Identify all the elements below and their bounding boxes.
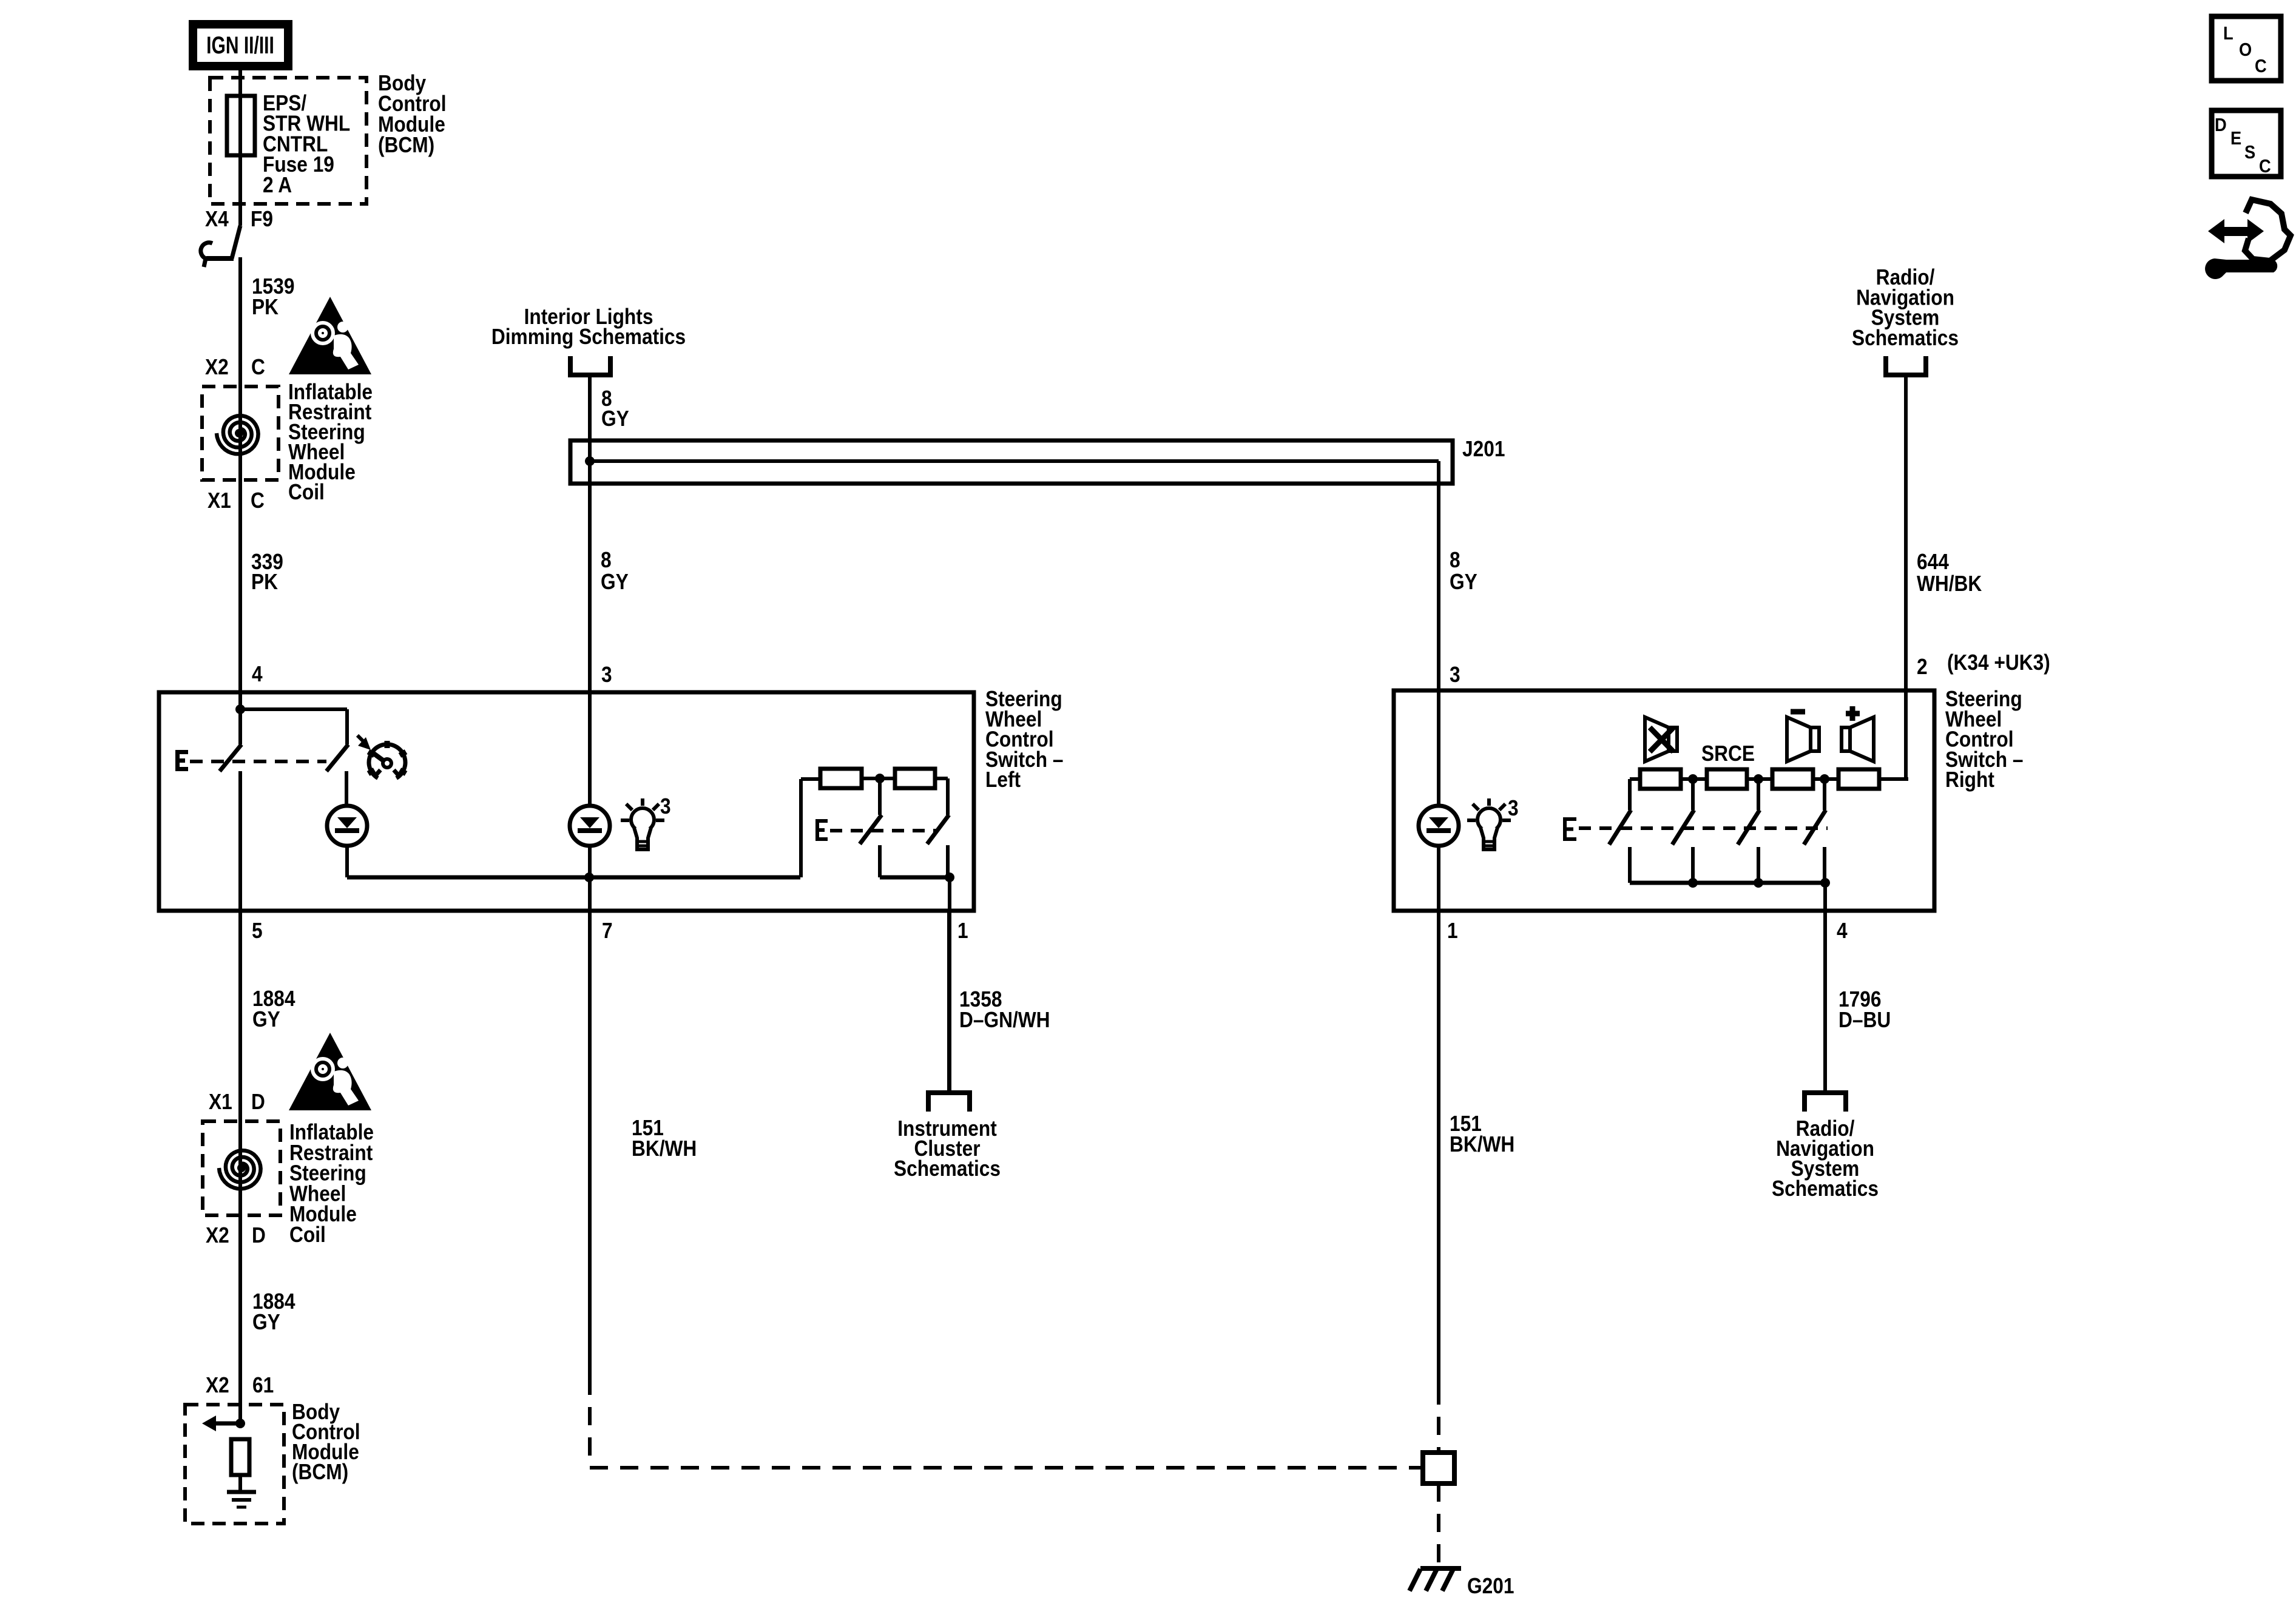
svg-text:X1: X1 [209,1090,232,1114]
svg-text:S: S [2244,142,2255,163]
svg-text:J201: J201 [1462,437,1505,461]
svg-text:Dimming Schematics: Dimming Schematics [491,325,686,349]
svg-text:C: C [2259,156,2271,177]
svg-text:X2: X2 [206,1373,229,1397]
svg-text:GY: GY [601,407,629,431]
svg-text:3: 3 [660,794,671,818]
svg-text:C: C [251,488,265,513]
svg-text:GY: GY [252,1310,280,1334]
svg-text:WH/BK: WH/BK [1917,572,1982,596]
svg-text:Left: Left [985,768,1021,792]
svg-text:3: 3 [601,663,612,687]
svg-text:3: 3 [1450,663,1460,687]
svg-text:4: 4 [1837,919,1848,943]
svg-text:Coil: Coil [289,1223,326,1247]
svg-text:1: 1 [957,919,968,943]
svg-text:F9: F9 [251,207,273,231]
svg-text:(K34 +UK3): (K34 +UK3) [1947,650,2050,675]
svg-text:2: 2 [1917,655,1928,679]
svg-text:(BCM): (BCM) [292,1460,348,1484]
svg-text:D: D [251,1090,265,1114]
svg-text:8: 8 [1450,548,1460,572]
svg-text:D: D [2215,115,2227,135]
svg-text:L: L [2223,23,2234,44]
svg-text:BK/WH: BK/WH [632,1136,697,1161]
svg-text:PK: PK [251,570,278,594]
svg-text:61: 61 [252,1373,274,1397]
svg-text:E: E [2230,128,2241,149]
svg-text:(BCM): (BCM) [378,133,434,157]
svg-text:Schematics: Schematics [1852,326,1959,350]
svg-text:BK/WH: BK/WH [1450,1132,1514,1156]
svg-text:GY: GY [1450,570,1477,594]
svg-text:D–GN/WH: D–GN/WH [959,1008,1050,1032]
svg-text:GY: GY [252,1007,280,1031]
svg-text:O: O [2239,39,2252,60]
svg-text:3: 3 [1508,796,1519,820]
svg-text:5: 5 [252,919,263,943]
svg-text:C: C [251,355,265,379]
svg-text:7: 7 [602,919,613,943]
svg-text:D–BU: D–BU [1838,1008,1891,1032]
svg-text:SRCE: SRCE [1701,741,1755,766]
svg-text:4: 4 [252,662,263,686]
svg-text:IGN II/III: IGN II/III [206,32,274,59]
svg-text:Schematics: Schematics [894,1156,1001,1181]
svg-text:2 A: 2 A [263,173,292,197]
svg-text:GY: GY [601,570,629,594]
svg-text:X2: X2 [205,355,229,379]
svg-text:1: 1 [1447,919,1458,943]
svg-text:X2: X2 [206,1223,229,1247]
svg-text:X1: X1 [208,488,231,513]
svg-text:644: 644 [1917,550,1949,574]
svg-text:Right: Right [1945,768,1994,792]
svg-text:Coil: Coil [288,480,325,504]
svg-text:C: C [2255,56,2267,76]
svg-text:8: 8 [601,548,612,572]
svg-text:PK: PK [252,295,279,319]
svg-text:Schematics: Schematics [1772,1176,1879,1201]
svg-text:G201: G201 [1467,1574,1514,1598]
svg-text:X4: X4 [205,207,229,231]
svg-text:D: D [252,1223,266,1247]
